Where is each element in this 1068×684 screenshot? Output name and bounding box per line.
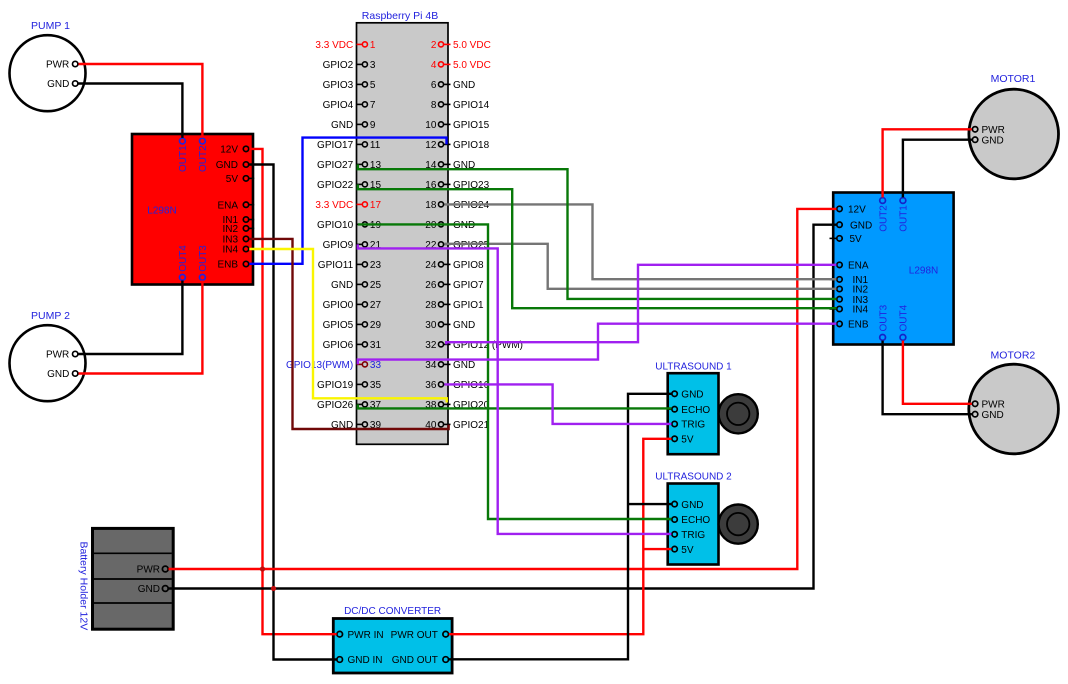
svg-text:29: 29 xyxy=(370,320,382,331)
RPi pin 27 (GPIO0) xyxy=(323,300,382,311)
svg-text:OUT2: OUT2 xyxy=(878,205,889,232)
RPi pin 29 (GPIO5) xyxy=(323,320,382,331)
pump PUMP 2 pin PWR xyxy=(46,350,83,361)
RPi pin 5 (GPIO3) xyxy=(323,80,376,91)
svg-text:ULTRASOUND 2: ULTRASOUND 2 xyxy=(655,472,732,483)
L298N-left pin IN4 xyxy=(222,245,254,256)
DC/DC pin GND OUT xyxy=(392,655,454,666)
svg-text:PWR: PWR xyxy=(46,60,69,71)
RPi pin 14 (GND) xyxy=(425,160,475,171)
svg-text:GND: GND xyxy=(331,120,353,131)
svg-text:GPIO17: GPIO17 xyxy=(317,140,354,151)
svg-text:ECHO: ECHO xyxy=(681,515,710,526)
svg-text:GPIO13(PWM): GPIO13(PWM) xyxy=(286,360,353,371)
pump PUMP 1 xyxy=(10,20,86,111)
svg-text:GND: GND xyxy=(47,79,69,90)
svg-text:IN4: IN4 xyxy=(853,305,869,316)
L298N-right pin GND xyxy=(830,220,873,231)
svg-text:35: 35 xyxy=(370,380,382,391)
L298N-right pin OUT1 xyxy=(899,192,910,232)
pump PUMP 1 pin PWR xyxy=(46,60,83,71)
svg-text:GND: GND xyxy=(216,160,238,171)
RPi pin 33 (GPIO13(PWM)) xyxy=(286,360,381,371)
ULTRASOUND 2 pin 5V xyxy=(667,545,694,556)
motor MOTOR1 xyxy=(969,73,1059,179)
svg-text:PWR: PWR xyxy=(46,350,69,361)
wire PUMP2 PWR to L298N-left OUT4 (black) xyxy=(79,281,183,355)
L298N-left pin OUT3 xyxy=(198,245,209,286)
svg-text:34: 34 xyxy=(425,360,437,371)
svg-text:IN4: IN4 xyxy=(222,245,238,256)
L298N-left pin ENB xyxy=(217,260,254,271)
svg-text:GPIO3: GPIO3 xyxy=(323,80,354,91)
svg-text:PWR IN: PWR IN xyxy=(348,630,384,641)
svg-text:31: 31 xyxy=(370,340,382,351)
wire MOTOR1 PWR to L298N-right OUT2 (red) xyxy=(883,129,972,197)
svg-text:GPIO4: GPIO4 xyxy=(323,100,354,111)
DC/DC pin PWR IN xyxy=(332,630,384,641)
svg-text:OUT2: OUT2 xyxy=(198,145,209,172)
wire RPi pin15 GPIO22 to L298N-right IN4 (dark green) xyxy=(358,184,837,308)
RPi pin 9 (GND) xyxy=(331,120,376,131)
svg-text:GND: GND xyxy=(453,220,475,231)
svg-text:GND IN: GND IN xyxy=(348,655,383,666)
svg-text:Raspberry Pi 4B: Raspberry Pi 4B xyxy=(362,10,438,22)
RPi pin 39 (GND) xyxy=(331,420,381,431)
ULTRASOUND 1 pin TRIG xyxy=(667,420,706,431)
RPi pin 2 (5.0 VDC) xyxy=(431,40,491,51)
svg-text:PWR: PWR xyxy=(137,565,160,576)
L298N-right pin OUT2 xyxy=(878,192,889,232)
wire GND bus stub to ULTRASOUND2 GND (black) xyxy=(628,503,671,505)
wire PUMP1 PWR to L298N-left OUT2 (red) xyxy=(79,64,203,138)
svg-text:GPIO22: GPIO22 xyxy=(317,180,354,191)
L298N-right pin 5V xyxy=(830,234,863,245)
svg-text:GPIO11: GPIO11 xyxy=(318,260,354,271)
svg-text:18: 18 xyxy=(425,200,437,211)
svg-text:9: 9 xyxy=(370,120,376,131)
svg-text:3.3 VDC: 3.3 VDC xyxy=(315,200,353,211)
svg-text:32: 32 xyxy=(425,340,437,351)
RPi pin 31 (GPIO6) xyxy=(323,340,382,351)
svg-text:MOTOR1: MOTOR1 xyxy=(991,73,1036,85)
RPi pin 19 (GPIO10) xyxy=(317,220,381,231)
RPi pin 40 (GPIO21) xyxy=(425,420,489,431)
L298N-right pin OUT3 xyxy=(878,304,889,345)
svg-text:11: 11 xyxy=(370,140,381,151)
svg-text:12V: 12V xyxy=(220,145,238,156)
svg-text:GND: GND xyxy=(681,500,703,511)
svg-text:12: 12 xyxy=(425,140,437,151)
RPi pin 22 (GPIO25) xyxy=(425,240,489,251)
svg-text:GPIO6: GPIO6 xyxy=(323,340,354,351)
RPi pin 30 (GND) xyxy=(425,320,475,331)
RPi pin 34 (GND) xyxy=(425,360,475,371)
L298N-right pin ENA xyxy=(830,261,869,272)
battery pin GND xyxy=(138,584,174,595)
L298N-left pin IN2 xyxy=(222,224,254,235)
svg-text:5.0 VDC: 5.0 VDC xyxy=(453,60,491,71)
svg-text:36: 36 xyxy=(425,380,437,391)
RPi pin 25 (GND) xyxy=(331,280,381,291)
ULTRASOUND 2 transducer xyxy=(719,504,758,543)
svg-text:L298N: L298N xyxy=(147,206,176,217)
ultrasonic sensor ULTRASOUND 2 xyxy=(655,472,732,565)
svg-text:TRIG: TRIG xyxy=(681,530,705,541)
RPi pin 23 (GPIO11) xyxy=(318,260,382,271)
Raspberry Pi 4B body xyxy=(357,23,449,445)
motor MOTOR1 pin PWR xyxy=(968,125,1005,136)
pump PUMP 1 pin GND xyxy=(47,79,82,90)
L298N-right pin OUT4 xyxy=(899,304,910,345)
svg-text:L298N: L298N xyxy=(909,265,938,276)
wire PUMP2 GND to L298N-left OUT3 (red) xyxy=(79,281,203,374)
RPi pin 20 (GND) xyxy=(425,220,475,231)
wire L298N-left GND to battery GND rail / DC-DC GND IN (black) xyxy=(249,165,336,660)
DC/DC converter body xyxy=(333,606,452,673)
svg-text:5V: 5V xyxy=(681,545,694,556)
RPi pin 6 (GND) xyxy=(431,80,475,91)
svg-text:5.0 VDC: 5.0 VDC xyxy=(453,40,491,51)
svg-text:10: 10 xyxy=(425,120,437,131)
wire L298N-left IN4 to RPi pin38 GPIO20 (yellow) xyxy=(249,249,446,403)
wire RPi pin19 GPIO10 to ULTRASOUND2 ECHO (green) xyxy=(358,224,672,519)
RPi pin 4 (5.0 VDC) xyxy=(431,60,491,71)
svg-text:GND: GND xyxy=(138,584,160,595)
svg-text:GPIO14: GPIO14 xyxy=(453,100,490,111)
svg-text:GND: GND xyxy=(453,360,475,371)
wire L298N-left IN3 to RPi pin40 GPIO21 (dark red) xyxy=(249,239,448,429)
svg-text:5V: 5V xyxy=(850,234,863,245)
svg-text:3.3 VDC: 3.3 VDC xyxy=(315,40,353,51)
svg-text:33: 33 xyxy=(370,360,382,371)
svg-text:GND: GND xyxy=(982,410,1004,421)
svg-text:PWR OUT: PWR OUT xyxy=(391,630,438,641)
wire DC-DC GND OUT bus to ULTRASOUND2 GND and ULTRASOUND1 GND (black) xyxy=(449,394,672,660)
ULTRASOUND 1 transducer xyxy=(719,394,758,433)
battery holder 12V body xyxy=(78,528,174,630)
svg-text:GND OUT: GND OUT xyxy=(392,655,438,666)
wire 5V bus stub to ULTRASOUND2 5V (red) xyxy=(643,548,671,550)
svg-text:26: 26 xyxy=(425,280,437,291)
pump PUMP 2 pin GND xyxy=(47,369,82,380)
RPi pin 13 (GPIO27) xyxy=(317,160,381,171)
svg-text:19: 19 xyxy=(370,220,382,231)
motor driver U-left L298N (red) body xyxy=(132,134,253,285)
svg-text:ENA: ENA xyxy=(848,261,869,272)
wire RPi pin13 GPIO27 to L298N-right IN3 (dark green) xyxy=(358,164,837,299)
RPi pin 8 (GPIO14) xyxy=(431,100,490,111)
motor MOTOR1 pin GND xyxy=(968,135,1004,146)
svg-text:ENA: ENA xyxy=(217,200,238,211)
wire RPi pin33 GPIO13(PWM) to L298N-right ENB (purple) xyxy=(358,324,837,365)
svg-text:OUT4: OUT4 xyxy=(178,245,189,272)
RPi pin 26 (GPIO7) xyxy=(425,280,484,291)
svg-text:ECHO: ECHO xyxy=(681,405,710,416)
motor MOTOR2 xyxy=(969,350,1059,454)
svg-text:GPIO18: GPIO18 xyxy=(453,140,490,151)
RPi pin 3 (GPIO2) xyxy=(323,60,376,71)
L298N-right pin IN2 xyxy=(830,285,869,296)
svg-text:GPIO7: GPIO7 xyxy=(453,280,484,291)
RPi pin 17 (3.3 VDC) xyxy=(315,200,381,211)
wire RPi pin37 GPIO26 to ULTRASOUND1 ECHO (green) xyxy=(358,404,672,408)
RPi pin 28 (GPIO1) xyxy=(425,300,484,311)
svg-text:GPIO19: GPIO19 xyxy=(317,380,354,391)
svg-text:28: 28 xyxy=(425,300,437,311)
svg-text:5V: 5V xyxy=(226,174,239,185)
svg-text:GPIO1: GPIO1 xyxy=(453,300,484,311)
wire RPi pin21 GPIO9 to ULTRASOUND2 TRIG (purple) xyxy=(358,244,672,534)
wire MOTOR1 GND to L298N-right OUT1 (black) xyxy=(903,140,972,198)
svg-text:GPIO0: GPIO0 xyxy=(323,300,354,311)
svg-text:4: 4 xyxy=(431,60,437,71)
svg-text:GND: GND xyxy=(453,320,475,331)
svg-text:17: 17 xyxy=(370,200,382,211)
RPi pin 12 (GPIO18) xyxy=(425,140,489,151)
svg-text:GND: GND xyxy=(982,135,1004,146)
svg-text:5: 5 xyxy=(370,80,376,91)
wire PUMP1 GND to L298N-left OUT1 (black) xyxy=(79,84,183,138)
svg-text:PWR: PWR xyxy=(982,125,1005,136)
svg-text:DC/DC CONVERTER: DC/DC CONVERTER xyxy=(344,606,441,617)
RPi pin 16 (GPIO23) xyxy=(425,180,489,191)
svg-text:ENB: ENB xyxy=(848,320,869,331)
ULTRASOUND 1 pin ECHO xyxy=(667,405,711,416)
L298N-left pin ENA xyxy=(217,200,254,211)
L298N-left pin 5V xyxy=(226,174,254,185)
wire battery GND to L298N-right GND (black) xyxy=(169,225,837,589)
junction node battery GND rail xyxy=(271,586,276,591)
L298N-left pin IN3 xyxy=(222,235,254,246)
svg-text:OUT3: OUT3 xyxy=(878,304,889,331)
RPi pin 37 (GPIO26) xyxy=(317,400,381,411)
svg-text:2: 2 xyxy=(431,40,437,51)
Raspberry Pi 4B title xyxy=(362,10,438,22)
RPi pin 18 (GPIO24) xyxy=(425,200,489,211)
ULTRASOUND 2 pin TRIG xyxy=(667,530,706,541)
svg-text:OUT1: OUT1 xyxy=(899,205,910,232)
RPi pin 35 (GPIO19) xyxy=(317,380,381,391)
svg-text:27: 27 xyxy=(370,300,382,311)
svg-text:GPIO10: GPIO10 xyxy=(317,220,354,231)
svg-text:IN2: IN2 xyxy=(222,224,238,235)
svg-text:GND: GND xyxy=(681,390,703,401)
svg-text:6: 6 xyxy=(431,80,437,91)
svg-text:OUT4: OUT4 xyxy=(899,304,910,331)
RPi pin 15 (GPIO22) xyxy=(317,180,381,191)
svg-text:24: 24 xyxy=(425,260,437,271)
RPi pin 32 (GPIO12 (PWM)) xyxy=(425,340,523,351)
svg-text:12V: 12V xyxy=(848,205,866,216)
svg-text:GPIO9: GPIO9 xyxy=(323,240,354,251)
RPi pin 1 (3.3 VDC) xyxy=(315,40,375,51)
RPi pin 11 (GPIO17) xyxy=(317,140,381,151)
svg-text:TRIG: TRIG xyxy=(681,420,705,431)
wire RPi pin32 GPIO12(PWM) to L298N-right ENA (purple) xyxy=(446,265,836,345)
svg-text:GND: GND xyxy=(850,220,872,231)
svg-text:GPIO2: GPIO2 xyxy=(323,60,354,71)
L298N-left pin OUT2 xyxy=(198,133,209,172)
svg-text:1: 1 xyxy=(370,40,376,51)
svg-text:OUT1: OUT1 xyxy=(178,145,189,172)
L298N-left pin IN1 xyxy=(222,215,254,226)
L298N-left pin GND xyxy=(216,160,254,171)
L298N-left pin OUT4 xyxy=(178,245,189,286)
wire MOTOR2 GND to L298N-right OUT3 (black) xyxy=(883,341,972,415)
svg-text:GPIO24: GPIO24 xyxy=(453,200,490,211)
svg-text:5V: 5V xyxy=(681,435,694,446)
L298N-right pin IN3 xyxy=(830,295,869,306)
svg-text:OUT3: OUT3 xyxy=(198,245,209,272)
wire DC-DC PWR OUT 5V bus to ULTRASOUND2 5V and ULTRASOUND1 5V (red) xyxy=(449,439,672,634)
wire RPi pin18 GPIO24 to L298N-right IN1 (gray) xyxy=(444,204,836,279)
svg-text:GPIO5: GPIO5 xyxy=(323,320,354,331)
svg-text:GPIO26: GPIO26 xyxy=(317,400,354,411)
svg-text:25: 25 xyxy=(370,280,382,291)
L298N-right pin IN4 xyxy=(830,305,869,316)
svg-text:GND: GND xyxy=(453,80,475,91)
wire RPi pin22 GPIO25 to L298N-right IN2 (gray) xyxy=(444,244,836,289)
wire RPi pin12 GPIO18 to L298N-left ENB (blue) xyxy=(249,138,446,264)
svg-text:GND: GND xyxy=(331,280,353,291)
svg-text:PWR: PWR xyxy=(982,400,1005,411)
RPi pin 36 (GPIO16) xyxy=(425,380,489,391)
svg-text:20: 20 xyxy=(425,220,437,231)
wire RPi pin36 GPIO16 to ULTRASOUND1 TRIG (purple) xyxy=(444,384,671,424)
ULTRASOUND 2 pin ECHO xyxy=(667,515,711,526)
svg-text:ENB: ENB xyxy=(217,260,238,271)
svg-text:PUMP 1: PUMP 1 xyxy=(31,20,70,32)
svg-text:GPIO21: GPIO21 xyxy=(453,420,490,431)
pump PUMP 2 xyxy=(10,310,86,401)
ULTRASOUND 1 pin 5V xyxy=(667,435,694,446)
svg-text:7: 7 xyxy=(370,100,376,111)
svg-text:GPIO27: GPIO27 xyxy=(317,160,354,171)
svg-text:GND: GND xyxy=(47,369,69,380)
motor MOTOR2 pin GND xyxy=(968,410,1004,421)
svg-text:8: 8 xyxy=(431,100,437,111)
svg-text:PUMP 2: PUMP 2 xyxy=(31,310,70,322)
wire MOTOR2 PWR to L298N-right OUT4 (red) xyxy=(903,341,972,404)
L298N-right pin 12V xyxy=(830,205,867,216)
DC/DC pin GND IN xyxy=(332,655,383,666)
motor MOTOR2 pin PWR xyxy=(968,400,1005,411)
wire L298N-left 12V to battery PWR rail / DC-DC PWR IN (red) xyxy=(249,149,336,634)
RPi pin 7 (GPIO4) xyxy=(323,100,376,111)
DC/DC pin PWR OUT xyxy=(391,630,454,641)
svg-text:23: 23 xyxy=(370,260,382,271)
wire battery PWR to L298N-right 12V (red) xyxy=(169,209,837,569)
svg-text:Battery Holder 12V: Battery Holder 12V xyxy=(78,542,90,631)
RPi pin 24 (GPIO8) xyxy=(425,260,484,271)
svg-text:30: 30 xyxy=(425,320,437,331)
RPi pin 10 (GPIO15) xyxy=(425,120,489,131)
ULTRASOUND 2 pin GND xyxy=(667,500,704,511)
ultrasonic sensor ULTRASOUND 1 xyxy=(655,361,732,454)
battery pin PWR xyxy=(137,565,174,576)
ULTRASOUND 1 pin GND xyxy=(667,390,704,401)
svg-text:3: 3 xyxy=(370,60,376,71)
L298N-left pin OUT1 xyxy=(178,133,189,172)
svg-text:ULTRASOUND 1: ULTRASOUND 1 xyxy=(655,361,732,372)
svg-text:GPIO8: GPIO8 xyxy=(453,260,484,271)
L298N-right pin ENB xyxy=(830,320,869,331)
svg-text:GPIO15: GPIO15 xyxy=(453,120,490,131)
L298N-left pin 12V xyxy=(220,145,254,156)
RPi pin 21 (GPIO9) xyxy=(323,240,382,251)
svg-text:MOTOR2: MOTOR2 xyxy=(991,350,1036,362)
RPi pin 38 (GPIO20) xyxy=(425,400,489,411)
motor driver U-right L298N (blue) body xyxy=(833,193,953,345)
L298N-right pin IN1 xyxy=(830,275,869,286)
junction node battery PWR rail xyxy=(260,566,265,571)
